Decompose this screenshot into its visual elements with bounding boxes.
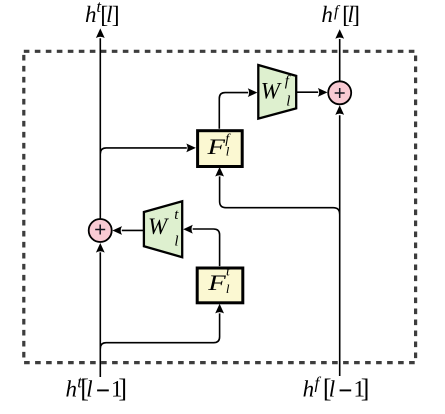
arrowhead into W_l^t right bbox=[183, 225, 193, 234]
arrowhead into F_l^f left bbox=[186, 144, 196, 153]
trapezoid W_l^t bbox=[144, 201, 182, 257]
svg-text:h: h bbox=[303, 376, 315, 401]
trapezoid W_l^f bbox=[258, 65, 296, 119]
label h^f[l] bbox=[321, 2, 360, 29]
wire branch f-line to F_l^f bottom bbox=[220, 176, 340, 214]
arrowhead into adder f left bbox=[318, 88, 328, 97]
svg-text:l: l bbox=[174, 233, 178, 249]
adder t (+ circle) bbox=[89, 219, 112, 242]
arrowhead into adder t bbox=[96, 243, 105, 253]
wire h^t input (left vertical, bottom segment) bbox=[99, 252, 101, 377]
svg-text:]: ] bbox=[118, 374, 127, 403]
svg-text:l: l bbox=[286, 94, 290, 110]
arrowhead into F_l^t bottom bbox=[215, 304, 224, 314]
block F_l^f bbox=[198, 131, 243, 167]
label h^t[l-1] bbox=[66, 372, 128, 403]
label h^t[l] bbox=[85, 0, 120, 28]
svg-text:h: h bbox=[321, 2, 333, 27]
wire branch t-line to F_l^t bottom bbox=[100, 313, 219, 348]
label h^f[l-1] bbox=[303, 374, 370, 403]
svg-text:F: F bbox=[206, 134, 225, 159]
wire W_l^f output to adder f bbox=[296, 91, 318, 93]
wire F_l^f output to W_l^f bbox=[219, 93, 248, 129]
adder f (+ circle) bbox=[328, 81, 351, 104]
svg-text:F: F bbox=[207, 270, 226, 295]
wire W_l^t output to adder t bbox=[122, 229, 144, 231]
wire branch t-line to F_l^f bbox=[100, 148, 187, 154]
svg-text:l: l bbox=[226, 281, 230, 296]
svg-text:]: ] bbox=[361, 374, 370, 403]
svg-text:W: W bbox=[148, 214, 169, 239]
wire F_l^t output to W_l^t bbox=[193, 229, 220, 266]
arrowhead into adder t right bbox=[112, 226, 122, 235]
arrowhead into adder f bbox=[335, 105, 344, 115]
svg-text:]: ] bbox=[112, 2, 120, 28]
svg-text:h: h bbox=[85, 2, 97, 27]
wire h^t output (left vertical, top segment) bbox=[99, 38, 101, 218]
svg-text:l: l bbox=[226, 144, 230, 159]
svg-text:l: l bbox=[329, 376, 335, 401]
svg-text:h: h bbox=[66, 376, 78, 401]
svg-text:l: l bbox=[86, 376, 92, 401]
block F_l^t bbox=[197, 265, 243, 303]
svg-text:W: W bbox=[261, 78, 282, 103]
arrowhead into W_l^f bbox=[248, 88, 258, 97]
arrowhead into F_l^f bottom bbox=[215, 167, 224, 177]
arrowhead h^f[l] bbox=[335, 29, 344, 39]
wire h^f input (right vertical, bottom segment) bbox=[339, 115, 341, 376]
wire h^f output (right vertical, top segment) bbox=[339, 39, 341, 81]
dashed block border bbox=[24, 51, 416, 362]
arrowhead h^t[l] bbox=[96, 28, 105, 38]
svg-text:]: ] bbox=[352, 2, 360, 28]
